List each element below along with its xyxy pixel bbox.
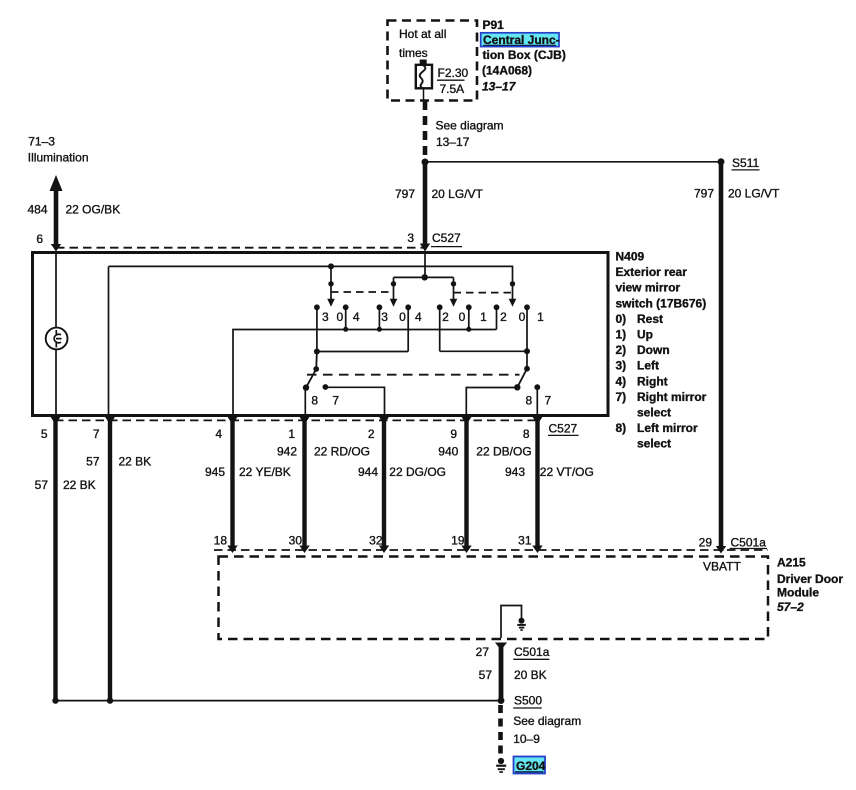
svg-text:22 OG/BK: 22 OG/BK [66,202,121,216]
svg-text:5: 5 [41,427,48,441]
contact T1 [314,304,320,351]
labels 8 7 (right selector) [525,394,551,408]
svg-text:797: 797 [395,187,415,201]
mechanical link dashed G3-G4 [454,292,513,294]
svg-text:22 VT/OG: 22 VT/OG [540,465,594,479]
svg-text:0: 0 [519,310,526,324]
splice S500 [498,697,505,704]
svg-text:945: 945 [205,465,225,479]
svg-text:71–3: 71–3 [28,135,55,149]
svg-text:A215: A215 [777,556,806,570]
contact T4 [405,304,411,351]
wire dashed to G204 [498,705,503,757]
arrow to 71-3 Illumination [50,175,63,252]
svg-text:4: 4 [215,427,222,441]
svg-text:1: 1 [288,427,295,441]
label 797 20 LG/VT (right) [694,187,780,201]
svg-text:VBATT: VBATT [703,560,741,574]
svg-text:Right mirror: Right mirror [637,390,707,404]
fuse box P91 (dashed outline) [388,21,478,101]
wire 797 dashed from CJB [423,101,428,160]
wire label 57 22 BK (pin 7) [86,455,151,469]
svg-text:2: 2 [368,427,375,441]
pin 3 label and connector C527 top [407,231,461,245]
svg-text:switch (17B676): switch (17B676) [616,296,707,310]
svg-text:2: 2 [500,310,507,324]
svg-text:484: 484 [27,202,47,216]
svg-text:Left mirror: Left mirror [637,421,698,435]
wire pin7 riser [108,267,110,415]
svg-text:6: 6 [36,232,43,246]
svg-text:22 DB/OG: 22 DB/OG [476,445,531,459]
svg-text:8: 8 [525,394,532,408]
value label F2.30 / 7.5A [438,66,469,96]
svg-text:3: 3 [407,231,414,245]
pin 29 arrow into A215 [716,546,726,554]
svg-text:G204: G204 [516,759,546,773]
svg-text:1): 1) [616,328,627,342]
svg-text:Exterior rear: Exterior rear [616,265,688,279]
svg-text:Rest: Rest [637,312,663,326]
contact T2 [343,304,349,331]
wiper G1 (left-right, left mirror) [327,263,335,306]
svg-text:943: 943 [505,465,525,479]
svg-text:select: select [637,437,671,451]
internal ground branch in A215 [501,606,522,639]
node splice on wire 797 [422,159,429,166]
svg-text:C527: C527 [549,422,578,436]
svg-text:942: 942 [277,445,297,459]
svg-text:0: 0 [399,310,406,324]
svg-text:4): 4) [616,374,627,388]
svg-text:2): 2) [616,343,627,357]
wire 797 20 LG/VT main [420,162,430,252]
svg-text:4: 4 [415,310,422,324]
pin 1 wire [299,416,309,554]
wire bus line2 [394,276,454,278]
label VBATT [703,560,741,574]
svg-text:1: 1 [537,310,544,324]
svg-text:8: 8 [523,427,530,441]
svg-text:S500: S500 [514,694,542,708]
svg-text:Driver Door: Driver Door [777,572,843,586]
svg-text:27: 27 [476,645,490,659]
labels 8 7 (left selector) [311,394,339,408]
connector C527 dashed line (top) [56,247,425,249]
svg-text:18: 18 [214,534,228,548]
svg-text:797: 797 [694,187,714,201]
contact 7 right with wire to pin8 [534,384,540,414]
wire link U2 (T5 to T8) [440,348,530,354]
svg-text:57: 57 [479,668,493,682]
svg-text:57–2: 57–2 [777,600,804,614]
label S500 See diagram 10-9 [514,694,542,708]
svg-text:30: 30 [289,534,303,548]
wire S500 bus to pins 5 and 7 [56,700,502,702]
svg-text:Hot at all: Hot at all [399,27,446,41]
contact T3 [377,304,383,331]
svg-text:3: 3 [381,310,388,324]
svg-text:0): 0) [616,312,627,326]
wire 797 20 LG/VT right branch [719,162,724,551]
svg-text:3): 3) [616,359,627,373]
pin 2 wire [379,416,389,554]
svg-text:22 DG/OG: 22 DG/OG [389,465,446,479]
contact 7 left with wire to pin2 [323,384,385,414]
svg-text:22 BK: 22 BK [119,455,152,469]
pin 8 wire [532,416,542,554]
label Hot at all times [399,27,446,60]
svg-text:7: 7 [545,394,552,408]
label P91 Central Junction Box [483,18,505,32]
svg-text:3: 3 [322,310,329,324]
svg-text:19: 19 [451,534,465,548]
module pin labels 18 30 32 19 31 [214,534,532,548]
svg-text:57: 57 [86,455,100,469]
svg-text:C501a: C501a [514,645,550,659]
label C527 bottom [549,422,578,436]
pin number labels 5 7 4 1 2 9 8 [41,427,530,441]
svg-text:2: 2 [442,310,449,324]
switch N409 box outline [33,253,609,416]
svg-text:8: 8 [311,394,318,408]
svg-text:944: 944 [358,465,378,479]
svg-text:Illumination: Illumination [28,151,89,165]
label N409 Exterior rear view mirror switch legend [616,250,707,451]
wiper G2 (up-down, left mirror) [390,277,398,306]
selector switch arm right (pins 8/7) [466,351,530,414]
svg-text:N409: N409 [616,250,645,264]
label See diagram 13-17 [436,119,504,150]
wire lamp to pin5 [55,349,57,414]
selector switch arm left (pins 8/7) [303,352,319,415]
node at pin7 wire [107,697,113,703]
node at pin5 wire [52,697,58,703]
label G204 highlighted [514,757,546,774]
svg-text:20 BK: 20 BK [514,668,547,682]
svg-text:S511: S511 [732,156,759,170]
contact T6 [466,304,472,331]
svg-text:10–9: 10–9 [513,732,540,746]
svg-text:8): 8) [616,421,627,435]
svg-text:(14A068): (14A068) [482,63,532,77]
svg-text:0: 0 [459,310,466,324]
contact position labels 3 0 4 (left mirror L/R) [322,310,360,324]
wiper G3 (up-down, right mirror) [450,277,458,306]
svg-text:9: 9 [450,427,457,441]
svg-text:select: select [637,406,671,420]
contact T8 [524,304,530,351]
mechanical link dashed selector [307,374,520,376]
pin 27 wire below A215 [495,643,507,700]
pin 6 label [36,232,43,246]
svg-text:7.5A: 7.5A [440,82,465,96]
pin 7 wire [105,416,115,700]
svg-text:Module: Module [777,586,819,600]
wiper G4 (left-right, right mirror) [509,281,517,307]
label 797 20 LG/VT (left) [395,187,484,201]
svg-text:32: 32 [369,534,383,548]
svg-text:Left: Left [637,359,659,373]
pin 5 wire [50,416,60,700]
wire bus line3 to pin4 [233,330,497,415]
svg-text:C527: C527 [432,231,461,245]
label 27 C501a [476,645,550,659]
wire pin6 to lamp [55,253,57,328]
mechanical link dashed G1-G2 [331,291,394,293]
svg-text:22 YE/BK: 22 YE/BK [239,465,291,479]
wire label 944 22 DG/OG [358,465,446,479]
svg-text:7): 7) [616,390,627,404]
label 71-3 Illumination [28,135,89,165]
svg-text:940: 940 [438,445,458,459]
svg-text:22 RD/OG: 22 RD/OG [314,445,370,459]
wire to S511 [425,161,719,163]
module A215 box (dashed outline) [219,557,769,640]
svg-text:Right: Right [637,374,668,388]
svg-text:Down: Down [637,343,670,357]
svg-text:57: 57 [35,478,49,492]
svg-text:13–17: 13–17 [436,135,470,149]
svg-text:view mirror: view mirror [616,281,681,295]
svg-text:Up: Up [637,328,653,342]
splice S511 [718,158,725,165]
svg-text:13–17: 13–17 [482,80,517,94]
svg-text:See diagram: See diagram [436,119,504,133]
wire bus line1 [109,266,513,299]
wire label 57 20 BK [479,668,547,682]
svg-text:0: 0 [337,310,344,324]
label 29 C501a [699,536,767,550]
connector C527 dashed line (bottom) [55,419,540,421]
contact position labels 2 0 1 (third group) [442,310,487,324]
svg-text:7: 7 [332,394,339,408]
svg-text:22 BK: 22 BK [63,478,96,492]
pin 4 wire [227,416,237,554]
svg-text:20 LG/VT: 20 LG/VT [432,187,484,201]
svg-text:4: 4 [353,310,360,324]
wire label 943 22 VT/OG [505,465,594,479]
ground symbol inside A215 [517,618,526,630]
svg-text:times: times [399,46,428,60]
ground G204 symbol [496,758,506,772]
svg-text:tion Box (CJB): tion Box (CJB) [483,48,566,62]
contact position labels 3 0 4 (second group) [381,310,422,324]
label A215 Driver Door Module [777,556,843,615]
svg-text:C501a: C501a [731,536,767,550]
svg-text:7: 7 [93,427,100,441]
lamp (illumination bulb) [46,328,68,350]
svg-text:20 LG/VT: 20 LG/VT [728,187,780,201]
wire label 57 22 BK (pin 5) [35,478,96,492]
wire 797 interior leg [422,253,428,280]
svg-text:See diagram: See diagram [513,714,581,728]
wire label 942 22 RD/OG [277,445,370,459]
contact T5 [437,304,443,351]
contact position labels 2 0 1 (fourth group) [500,310,544,324]
fuse F2.30 7.5A [416,60,432,101]
svg-text:P91: P91 [483,18,505,32]
connector C501a dashed line (top of A215) [214,549,768,551]
wire link U1 (T1 to T4) [314,349,408,355]
wire label 940 22 DB/OG [438,445,531,459]
svg-text:29: 29 [699,536,713,550]
svg-text:F2.30: F2.30 [438,66,469,80]
pin 9 wire [461,416,471,554]
svg-text:31: 31 [518,534,532,548]
svg-text:1: 1 [480,310,487,324]
contact T7 [494,304,500,329]
wire label 945 22 YE/BK [205,465,291,479]
wire 484 22 OG/BK label [27,202,120,216]
